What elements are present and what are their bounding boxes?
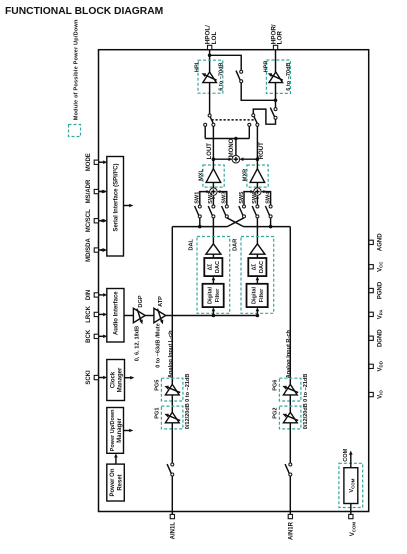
wire PG1 to input switch L — [171, 423, 173, 463]
svg-text:SCKI: SCKI — [86, 370, 92, 385]
wire SW4 to MXR summer — [263, 192, 270, 206]
amplifier PG6 0 to -21dB — [283, 384, 297, 395]
wire SW6 to MXR summer — [256, 196, 258, 205]
svg-text:VCOM: VCOM — [350, 522, 356, 537]
pin PGND — [369, 288, 373, 292]
svg-text:Analog Input R-ch: Analog Input R-ch — [286, 330, 292, 379]
pin AIN1L — [170, 514, 174, 518]
digital filter R block — [247, 284, 268, 307]
switch AIN1L select — [171, 463, 174, 466]
node mono junction — [234, 137, 238, 141]
wire input switch L to AIN1L pin — [171, 476, 173, 515]
chip outline — [99, 50, 369, 512]
switch SPDT right (HPR source select) — [252, 114, 255, 117]
svg-text:0, 6, 12, 18dB: 0, 6, 12, 18dB — [135, 326, 141, 361]
svg-text:LOR: LOR — [277, 31, 284, 45]
amplifier ATP 0 to -63dB/Mute — [154, 308, 166, 322]
wire SW3 to MXL summer — [219, 192, 227, 206]
module box PG1 — [161, 406, 183, 429]
pin MD/SDA — [94, 248, 98, 252]
module box HPL — [198, 60, 223, 93]
wire MXR output — [256, 159, 258, 169]
amplifier MXL — [206, 169, 221, 183]
power up/down manager block U4 — [107, 408, 124, 454]
wire SW6 to DAC R — [256, 218, 258, 244]
pin HPOL/LOL — [208, 45, 212, 49]
pin MS/ADR — [94, 189, 98, 193]
svg-text:MXL: MXL — [198, 169, 204, 181]
wire bridge from HPL output — [210, 55, 242, 70]
wire PG6 to PG2 — [289, 395, 291, 412]
wire gang link (dashed) — [212, 119, 256, 121]
amplifier PG5 0 to -21dB — [165, 384, 179, 395]
wire digital bus to filter L — [212, 311, 214, 316]
pin AGND — [369, 240, 373, 244]
wire MXR input — [256, 182, 258, 188]
amplifier HPL 6 to -70dB — [203, 72, 217, 83]
wire digital filter L to DAC L — [212, 280, 214, 284]
svg-text:AIN1L: AIN1L — [170, 522, 176, 540]
VCOM block — [344, 468, 358, 504]
wire MODE to serial interface — [99, 161, 104, 163]
wire MXL output — [212, 159, 214, 169]
pin VIO — [369, 392, 373, 396]
DAC R block — [248, 258, 266, 276]
wire HPOL pin to HPL output — [209, 50, 211, 72]
wire mono riser — [235, 139, 237, 156]
wire SW4 to analog R bus — [270, 218, 272, 227]
svg-text:PG5: PG5 — [155, 380, 161, 391]
wire analog R bus — [244, 226, 291, 228]
svg-text:COM: COM — [343, 448, 349, 461]
svg-text:DGP: DGP — [138, 295, 144, 307]
svg-text:Power On: Power On — [110, 468, 116, 496]
svg-text:PG2: PG2 — [273, 407, 279, 418]
pin MODE — [94, 160, 98, 164]
svg-text:Module of Possible Power Up/Do: Module of Possible Power Up/Down — [73, 19, 79, 120]
svg-text:0/12/20dB: 0/12/20dB — [185, 403, 191, 429]
pin LRCK — [94, 312, 98, 316]
svg-text:DGND: DGND — [378, 329, 384, 347]
svg-text:SW5: SW5 — [239, 192, 245, 204]
wire analog L line upper — [171, 227, 173, 385]
svg-text:0 to –21dB: 0 to –21dB — [185, 374, 191, 402]
svg-text:PG6: PG6 — [273, 380, 279, 391]
summer MONO — [232, 155, 240, 163]
wire ROUT to mono summer — [241, 158, 258, 160]
pin VCOM — [349, 514, 353, 518]
wire SW3 cross to analog R bus — [227, 218, 244, 227]
summer MXL inputs — [210, 188, 217, 195]
svg-text:VIO: VIO — [378, 390, 384, 399]
clock manager block U3 — [107, 360, 125, 401]
module box MXL — [203, 165, 224, 187]
module box HPR — [266, 60, 290, 93]
pin VDD — [369, 364, 373, 368]
amplifier HPR 6 to -70dB — [269, 72, 283, 83]
wire HPOR pin to HPR output — [275, 50, 277, 72]
svg-text:SW4: SW4 — [265, 191, 271, 204]
node LOUT — [212, 157, 216, 161]
node HPR input junction — [274, 99, 278, 103]
module box DAR — [241, 237, 274, 314]
svg-text:DAC: DAC — [215, 261, 221, 273]
power up/down manager control arrow — [124, 430, 130, 432]
wire bridge to HPR input — [241, 83, 275, 101]
wire SPDT-R mono contact riser — [248, 126, 250, 138]
svg-text:Manager: Manager — [117, 417, 123, 442]
serial interface block U1 — [107, 157, 124, 257]
switch SPDT left (HPL source select) — [208, 114, 211, 117]
switch AIN1R select — [289, 463, 292, 466]
module box VCOM — [339, 463, 363, 507]
svg-text:Reset: Reset — [117, 474, 123, 490]
pin DIN — [94, 293, 98, 297]
pin SCKI — [94, 375, 98, 379]
svg-text:0 to –63dB /Mute: 0 to –63dB /Mute — [156, 323, 162, 367]
amplifier DAC L output — [206, 244, 221, 254]
wire hook HPR switch to SPDT common — [253, 109, 275, 124]
wire DAC R box to amplifier — [256, 254, 258, 258]
switch HPR input — [274, 108, 277, 111]
serial interface control arrow — [124, 205, 130, 207]
audio interface block U2 — [107, 289, 124, 343]
module box PG5 — [161, 378, 183, 401]
wire DGP to ATP — [145, 315, 154, 317]
svg-text:DAR: DAR — [233, 239, 239, 251]
wire analog L bus — [172, 226, 227, 228]
svg-text:DAC: DAC — [259, 261, 265, 273]
svg-text:FUNCTIONAL BLOCK DIAGRAM: FUNCTIONAL BLOCK DIAGRAM — [5, 6, 163, 17]
svg-text:Clock: Clock — [110, 371, 116, 388]
svg-text:DIN: DIN — [86, 290, 92, 300]
wire HPR input — [275, 83, 277, 108]
svg-text:6 to –70dB: 6 to –70dB — [286, 62, 292, 90]
svg-text:ΔΣ: ΔΣ — [252, 264, 258, 271]
svg-text:Digital: Digital — [208, 287, 214, 305]
wire SW1 to MXL summer — [200, 192, 208, 206]
svg-text:MS/ADR: MS/ADR — [86, 179, 92, 203]
wire audio interface to DGP — [124, 315, 133, 317]
wire PG5 to PG1 — [171, 395, 173, 412]
wire PG2 to input switch R — [289, 423, 291, 463]
wire LRCK to audio interface — [99, 313, 104, 315]
wire DAC L box to amplifier — [212, 254, 214, 258]
wire SW1 to analog L bus — [199, 218, 201, 227]
svg-text:Filter: Filter — [259, 288, 265, 302]
node ROUT — [256, 157, 260, 161]
wire MC/SCL to serial interface — [99, 220, 104, 222]
wire SW2 to MXL summer — [212, 196, 214, 205]
svg-text:MODE: MODE — [86, 153, 92, 171]
svg-text:SW1: SW1 — [195, 192, 201, 204]
wire mono feed line — [205, 138, 249, 140]
legend box — [69, 125, 81, 137]
svg-text:LOUT: LOUT — [207, 143, 213, 160]
svg-text:LOL: LOL — [211, 32, 218, 45]
svg-text:HPL: HPL — [194, 60, 200, 72]
svg-text:Filter: Filter — [215, 288, 221, 302]
pin MC/SCL — [94, 219, 98, 223]
pin DGND — [369, 336, 373, 340]
svg-text:MXR: MXR — [242, 169, 248, 181]
clock manager control arrow — [125, 377, 131, 379]
svg-text:6 to –70dB: 6 to –70dB — [219, 62, 225, 90]
svg-text:Digital: Digital — [252, 287, 258, 305]
svg-text:MD/SDA: MD/SDA — [86, 238, 92, 262]
summer MXR inputs — [254, 188, 261, 195]
svg-text:VCOM: VCOM — [349, 478, 355, 492]
wire digital bus — [166, 315, 258, 317]
wire digital filter R to DAC R — [256, 280, 258, 284]
svg-text:LRCK: LRCK — [86, 305, 92, 322]
svg-text:SW2: SW2 — [208, 192, 214, 204]
svg-text:AIN1R: AIN1R — [288, 521, 294, 540]
wire analog R line upper — [289, 227, 291, 385]
switch bridge (L out to R in) — [240, 70, 243, 73]
svg-text:PGND: PGND — [378, 281, 384, 299]
module box MXR — [247, 165, 268, 187]
wire power on reset to power up/down manager — [115, 457, 117, 465]
svg-text:Manager: Manager — [117, 367, 123, 392]
wire HPL input — [209, 83, 211, 115]
svg-text:BCK: BCK — [86, 329, 92, 343]
wire SW5 cross to analog L bus — [227, 218, 244, 227]
wire MD/SDA to serial interface (bidirectional) — [99, 249, 104, 251]
amplifier MXR — [250, 169, 265, 183]
amplifier DGP 0,6,12,18dB — [133, 308, 145, 322]
node HPL output junction — [208, 54, 212, 58]
module box PG6 — [279, 378, 301, 401]
module box PG2 — [279, 406, 301, 429]
svg-text:AGND: AGND — [378, 233, 384, 251]
svg-text:SW3: SW3 — [222, 192, 228, 204]
svg-text:Audio Interface: Audio Interface — [114, 291, 120, 335]
DAC L block — [204, 258, 222, 276]
svg-text:ATP: ATP — [158, 296, 164, 307]
wire SW2 to DAC L — [212, 218, 214, 244]
pin VPA — [369, 312, 373, 316]
wire LOUT to mono summer — [213, 158, 231, 160]
wire BCK to audio interface — [99, 335, 104, 337]
svg-text:ROUT: ROUT — [259, 142, 265, 159]
wire SPDT-L mono contact riser — [204, 126, 206, 138]
power on reset block U5 — [107, 464, 125, 501]
pin BCK — [94, 334, 98, 338]
svg-text:VDD: VDD — [378, 361, 384, 371]
pin AIN1R — [288, 514, 292, 518]
wire SPDT-L to LOUT — [212, 126, 214, 159]
wire MS/ADR to serial interface — [99, 191, 104, 193]
wire SW5 to MXR summer — [244, 192, 252, 206]
pin HPOR/LOR — [273, 45, 277, 49]
wire VCOM reference arrow — [350, 454, 352, 468]
svg-text:0/12/20dB: 0/12/20dB — [303, 403, 309, 429]
svg-text:ΔΣ: ΔΣ — [208, 264, 214, 271]
amplifier DAC R output — [250, 244, 265, 254]
svg-text:SW6: SW6 — [252, 192, 258, 204]
wire VCOM block to pin — [350, 504, 352, 515]
pin VCC — [369, 265, 373, 269]
amplifier PG2 0/12/20dB — [283, 412, 297, 423]
svg-text:HPR: HPR — [264, 61, 270, 73]
wire SCKI to clock manager — [99, 377, 104, 379]
svg-text:Serial Interface (SPI/I²C): Serial Interface (SPI/I²C) — [112, 163, 119, 231]
wire SPDT-R to ROUT — [256, 126, 258, 159]
digital filter L block — [203, 284, 224, 307]
svg-text:MONO: MONO — [229, 138, 235, 157]
svg-text:0 to –21dB: 0 to –21dB — [303, 374, 309, 402]
svg-text:MC/SCL: MC/SCL — [86, 209, 92, 232]
wire input switch R to AIN1R pin — [289, 476, 291, 515]
svg-text:Analog Input L-ch: Analog Input L-ch — [168, 330, 174, 378]
svg-text:Power Up/Down: Power Up/Down — [110, 409, 116, 452]
svg-text:DAL: DAL — [189, 238, 195, 250]
amplifier PG1 0/12/20dB — [165, 412, 179, 423]
svg-text:PG1: PG1 — [155, 407, 161, 418]
wire digital bus to filter R — [256, 311, 258, 316]
svg-text:VCC: VCC — [378, 261, 384, 272]
svg-text:VPA: VPA — [378, 309, 384, 320]
wire DIN to audio interface — [99, 294, 104, 296]
module box DAL — [197, 237, 230, 314]
wire MXL input — [212, 182, 214, 188]
